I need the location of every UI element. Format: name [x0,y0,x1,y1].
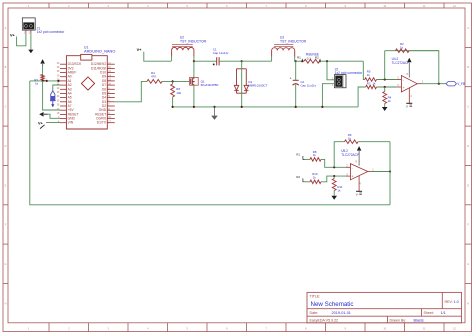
wire to R10 [305,181,311,183]
node non-inverting input U4 [384,86,386,88]
node junctions on A1 wire [42,80,60,82]
wire U4 output [422,83,447,85]
svg-text:0.1: 0.1 [307,56,312,60]
wire VIN pin [46,122,60,124]
wire U2 left lead [171,56,173,61]
wire U3 right lead [295,56,296,61]
node drain junction [193,60,195,62]
svg-text:Sheet:: Sheet: [424,311,434,315]
wire bottom rail to R7 [358,87,366,107]
svg-text:New Schematic: New Schematic [311,301,354,308]
wire RSENSE to J2 drop [320,60,364,62]
svg-text:1k: 1k [313,176,317,180]
diode D1 MBR10100CT [234,69,267,93]
power flag V+ arrow (U5) [357,146,362,151]
resistor R7 1k [366,85,377,89]
svg-text:ARDUINO_NANO: ARDUINO_NANO [84,49,115,54]
node inverting input U4 [384,78,386,80]
op board U1 ARDUINO_NANO [57,46,116,129]
ground flag (GND pin, left arrow) [39,112,43,117]
svg-text:H: H [467,302,469,305]
svg-text:IRLZ44NPBF: IRLZ44NPBF [201,83,219,87]
svg-text:Date:: Date: [310,311,319,315]
wire R7 to pin3 [377,86,397,88]
power flag V+ (VIN) [38,121,45,128]
wire R8 to inverting node [321,159,346,167]
svg-text:R1: R1 [297,56,301,60]
svg-text:+: + [352,175,354,179]
svg-text:V+: V+ [137,48,143,52]
svg-text:TLC272ACP: TLC272ACP [392,61,410,65]
power flag arrow (above R3) [40,59,45,66]
wire U5 output [372,171,390,173]
wire J1 pin1 to V+ flag [17,34,26,46]
node U4 output junction [438,83,440,85]
svg-text:1x2 pcb connector: 1x2 pcb connector [37,30,66,34]
wire U5 feedback rail [334,142,344,168]
node RSENSE left [301,60,303,62]
resistor R6b 1k (feedback) [345,140,359,144]
net flag R2 (input) [296,175,304,182]
svg-text:V_FB: V_FB [457,82,465,86]
svg-text:-: - [403,78,404,82]
wire rail down to R5 [363,61,364,79]
wire U2 right lead to drain node [193,56,195,61]
svg-text:1k: 1k [348,136,352,140]
svg-text:VIN: VIN [68,121,74,125]
wire to R8 [305,158,311,160]
svg-text:1k: 1k [35,82,39,86]
resistor R11 1k (to ground) [333,176,335,178]
wire rail to RSENSE [296,60,304,62]
svg-text:H: H [5,302,7,305]
wire J2 pin2 to bottom rail [322,84,334,107]
resistor R6 10k [171,84,175,97]
svg-text:V+: V+ [10,34,16,38]
capacitor C2 (polarized) [290,61,317,107]
node junctions bottom rail [172,106,324,108]
svg-text:TST_INDUCTOR: TST_INDUCTOR [280,39,307,43]
svg-text:C: C [467,106,469,109]
op-amp U5.2 TLC272ACP [341,149,374,191]
svg-text:1x2 pcb connector: 1x2 pcb connector [335,71,364,75]
wire drain [193,61,195,77]
svg-text:R2: R2 [315,56,319,60]
svg-text:D: D [5,145,7,148]
svg-text:1/1: 1/1 [441,311,446,315]
connector J1 1x2 pcb connector [22,18,65,35]
wire J1 pin2 to ground [30,34,32,50]
svg-text:R1: R1 [296,152,300,156]
svg-text:D: D [467,145,469,148]
resistor R1 RSENSE 0.1 [304,59,320,63]
ground (J1) [28,50,33,54]
svg-text:REV:: REV: [445,300,453,304]
wire A2 pin to LED [53,85,60,91]
wire top rail U2 to C1 [194,60,217,62]
svg-text:1k: 1k [388,99,392,103]
svg-text:MBR10100CT: MBR10100CT [248,84,267,88]
resistor R8 1k [310,158,321,162]
svg-text:TST_INDUCTOR: TST_INDUCTOR [180,39,207,43]
resistor R4b 1k (to ground) [383,92,387,104]
wire flag to R3 [42,65,44,75]
node non-inverting input U5 [333,175,335,177]
resistor R4 47K [147,80,162,84]
inductor U3 TST_INDUCTOR [272,36,307,57]
wire J2 pin1 [327,61,334,80]
svg-text:+: + [290,77,292,81]
net flag V_FB [446,82,465,87]
resistor R10 1k [310,180,321,184]
inductor U2 TST_INDUCTOR [172,36,207,57]
svg-text:D1/TX: D1/TX [97,121,107,125]
svg-text:10k: 10k [176,91,181,95]
wire source to bottom rail [193,85,195,107]
wire U4 feedback loop [396,51,439,84]
svg-text:47K: 47K [151,75,156,79]
node gate/R6 junction [172,80,174,82]
node inverting input U5 [333,166,335,168]
svg-text:G: G [5,263,7,266]
op-amp U4.2 TLC272ACP [392,57,424,103]
svg-text:V: V [406,105,408,109]
wire U3 left lead [271,56,273,61]
power flag Vss (U4) [406,103,412,108]
wire R5 to pin2 [377,79,397,81]
svg-text:Drawn By:: Drawn By: [390,318,407,322]
transistor Q1 IRLZ44NPBF [190,77,219,87]
svg-text:1k: 1k [367,73,371,77]
svg-text:V+: V+ [38,121,44,125]
svg-text:2019-01-01: 2019-01-01 [332,311,351,315]
wire D3 to R4 [115,81,147,101]
LED D2 (blue) [50,91,56,107]
wire bottom ground rail [173,106,359,108]
ground (R4b) [382,107,388,111]
svg-text:R2: R2 [296,175,300,179]
node RSENSE right [319,60,321,62]
node D1 top junction [241,60,243,62]
svg-text:R7: R7 [367,81,371,85]
node J2 pin1 tap [326,60,328,62]
power flag V+ arrow (U4) [407,58,412,63]
svg-text:1.0: 1.0 [454,300,459,304]
svg-text:1k: 1k [337,189,341,193]
wire U5 right rail [389,142,391,205]
capacitor C1 [213,48,229,66]
svg-text:-: - [352,166,353,170]
svg-text:Cap 11u11v: Cap 11u11v [213,51,229,55]
wire C1 to D1 [219,60,242,62]
wire R10 to non-inverting node [321,176,346,182]
resistor R2 1k (feedback) [396,49,410,53]
svg-text:TITLE:: TITLE: [310,294,321,298]
wire A1 row [30,80,60,82]
svg-text:EasyEDA V5.9.22: EasyEDA V5.9.22 [310,318,339,322]
svg-text:C: C [5,106,7,109]
svg-text:TLC272ACP: TLC272ACP [341,153,359,157]
resistor R5 1k [365,78,377,82]
svg-text:G: G [467,263,469,266]
svg-text:Cap 11u11v: Cap 11u11v [300,83,316,87]
connector J2 1x2 pcb connector [332,68,363,88]
wire top rail D1 to U3 [242,60,272,62]
net flag R2 [315,56,320,62]
power flag V+ (input rail) [137,48,143,52]
power flag V+ (J1) [10,34,16,38]
net flag R1 [297,56,302,62]
wire gate [162,80,189,82]
wire A1 node down to +5V pin [43,81,60,110]
wire V+ to U2 [144,52,171,61]
ground (R11) [331,196,337,200]
resistor R3 [41,75,44,81]
svg-text:1k: 1k [372,81,376,85]
ground (power stage) [211,107,218,120]
svg-text:1k: 1k [313,153,317,157]
svg-text:Blasis: Blasis [414,318,424,322]
wire left rail (A1 node to bottom rail) [30,81,390,205]
net flag R1 (input) [296,152,304,159]
power flag Vss (U5) [356,191,362,196]
node U5 output junction [389,170,391,172]
svg-text:V: V [356,193,358,197]
svg-text:+: + [403,86,405,90]
wire GND pin [48,114,61,118]
wire D1 center vertical [241,61,243,107]
title block [307,292,462,322]
node output junction [295,60,297,62]
